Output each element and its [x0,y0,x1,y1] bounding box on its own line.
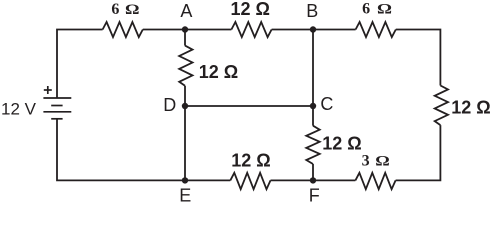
wire top between R2 and B [272,29,313,31]
svg-text:12 Ω: 12 Ω [230,0,269,19]
resistor R7 12ohm middle vertical zigzag A-D [179,46,192,86]
wire top between R1 and A [143,29,185,31]
svg-text:B: B [306,1,318,21]
node B junction dot [310,26,316,32]
battery V1 long plate top [43,97,71,99]
wire bottom between F and R5 [313,179,355,181]
wire R8 to F [312,164,314,180]
wire R7 to D [184,86,186,106]
svg-text:12 Ω: 12 Ω [231,150,270,170]
svg-text:Ω: Ω [377,1,392,17]
svg-text:Ω: Ω [125,2,140,18]
resistor R5 3ohm bottom-right zigzag [355,173,395,189]
node C junction dot [310,103,316,109]
svg-text:3: 3 [362,152,370,169]
battery V1 short plate bottom [51,118,62,120]
resistor R8 12ohm vertical zigzag C-F [306,126,319,164]
svg-text:12 V: 12 V [1,100,37,119]
svg-text:12 Ω: 12 Ω [199,62,238,82]
battery plus sign [44,86,52,94]
node F junction dot [310,177,316,183]
wire D to C [185,105,313,107]
wire D to E [184,106,186,180]
wire top-right corner down to R4 [396,30,441,86]
battery V1 short plate upper [51,105,62,107]
svg-text:D: D [163,95,176,115]
wire bottom-left from R6 to battery [57,119,230,181]
wire B to C [312,30,314,107]
battery V1 long plate lower [43,111,71,113]
wire top between A and R2 [185,29,231,31]
svg-text:6: 6 [111,1,119,18]
wire right side down to bottom corner and to R5 [396,125,441,180]
wire bottom between E and R6 right end [271,179,314,181]
svg-text:A: A [180,1,192,21]
svg-text:C: C [320,94,333,114]
wire A to R7 [184,30,186,46]
resistor R3 6ohm top-right zigzag [356,22,396,37]
resistor R4 12ohm right vertical zigzag [435,86,448,126]
svg-text:Ω: Ω [375,154,390,170]
node A junction dot [182,26,188,32]
wire top between B and R3 [313,29,356,31]
svg-text:E: E [179,185,191,205]
node E junction dot [182,177,188,183]
resistor R2 12ohm top zigzag [231,22,271,37]
wire C to R8 [312,106,314,126]
resistor R6 12ohm bottom zigzag [230,173,270,189]
svg-text:6: 6 [362,0,370,17]
resistor R1 6ohm top-left zigzag [103,22,143,37]
svg-text:12 Ω: 12 Ω [322,134,361,154]
svg-text:F: F [309,185,320,205]
wire left-top from battery up and to R1 [57,30,103,99]
node D junction dot [182,103,188,109]
svg-text:12 Ω: 12 Ω [451,98,490,118]
